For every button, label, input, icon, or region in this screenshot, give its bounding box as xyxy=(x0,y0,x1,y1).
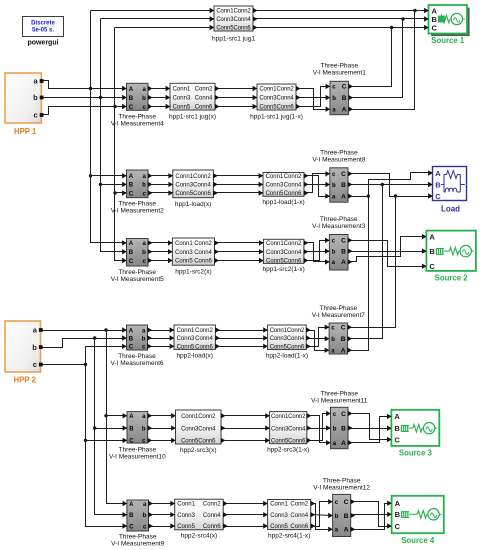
wire measurement8 A to Load A xyxy=(349,173,433,197)
svg-text:b: b xyxy=(142,426,146,432)
svg-text:Conn5Conn6: Conn5Conn6 xyxy=(270,345,305,351)
wire measurement3 A to Source2 A xyxy=(349,237,427,262)
svg-text:Source 4: Source 4 xyxy=(401,536,435,545)
svg-text:Conn3: Conn3 xyxy=(173,96,191,102)
svg-text:b: b xyxy=(332,183,336,189)
wire net c to jug1 Conn5 xyxy=(115,27,215,29)
svg-text:Conn1: Conn1 xyxy=(270,502,288,508)
subsystem block hpp1-src2(1-x) xyxy=(259,239,308,273)
junction net a row2 xyxy=(89,174,92,177)
svg-text:B: B xyxy=(435,180,441,189)
wire row5 phase b straight xyxy=(307,428,331,430)
svg-text:C: C xyxy=(341,411,346,418)
wire row4 conn(x) to conn(1-x) phase c xyxy=(216,346,268,348)
svg-text:Conn2: Conn2 xyxy=(195,87,213,93)
wire HPP2 b to measurement6 B xyxy=(41,339,127,348)
wire measurement3 C to Source2 C xyxy=(349,241,427,267)
junction net a2 row4 xyxy=(104,328,107,331)
svg-text:B: B xyxy=(342,95,347,102)
wire row5 conn(x) to conn(1-x) phase b xyxy=(221,428,270,430)
powergui block (Discrete 5e-05 s.) xyxy=(23,17,64,47)
svg-text:Conn2: Conn2 xyxy=(193,174,211,180)
wire row1 phase a crossover down xyxy=(297,89,331,110)
svg-text:Conn1: Conn1 xyxy=(175,174,193,180)
wire row3 conn(x) to conn(1-x) phase b xyxy=(215,251,264,253)
wire row1 measurement to conn phase b xyxy=(149,97,171,99)
svg-text:Three-Phase: Three-Phase xyxy=(320,305,358,312)
wire row4 phase a crossover down xyxy=(307,331,330,351)
svg-text:C: C xyxy=(341,325,346,332)
wire row4 phase b straight xyxy=(307,338,330,340)
svg-text:Conn6: Conn6 xyxy=(195,345,213,351)
junction net c2 branch xyxy=(84,363,87,366)
wire row2 conn(x) to conn(1-x) phase a xyxy=(214,175,263,177)
svg-text:Conn5Conn6: Conn5Conn6 xyxy=(216,26,251,32)
svg-text:Conn3: Conn3 xyxy=(266,183,284,189)
three-phase V-I measurement block Three-Phase V-I Measurement11 xyxy=(311,391,368,449)
wire row4 measurement to conn phase a xyxy=(149,330,175,332)
svg-text:Three-Phase: Three-Phase xyxy=(320,391,358,398)
svg-text:C: C xyxy=(394,435,400,444)
svg-text:b: b xyxy=(143,513,147,519)
subsystem block hpp2-load(1-x) xyxy=(263,325,310,360)
wire row5 conn(x) to conn(1-x) phase c xyxy=(221,440,270,442)
subsystem block hpp2-src4(x) xyxy=(170,499,227,539)
wire jug1 Conn2 to Source1 A xyxy=(253,10,429,12)
svg-text:Conn3: Conn3 xyxy=(175,183,193,189)
wire row5 conn(x) to conn(1-x) phase a xyxy=(221,415,270,417)
wire row1 phase c crossover up xyxy=(297,87,331,107)
svg-text:hpp2-src4(1-x): hpp2-src4(1-x) xyxy=(268,533,310,540)
wire measurement11 B to Source3 B xyxy=(349,428,392,430)
wire row2 phase b straight xyxy=(305,184,330,186)
svg-text:Conn4: Conn4 xyxy=(193,183,211,189)
wire row1 measurement to conn phase c xyxy=(149,106,171,108)
svg-text:A: A xyxy=(341,193,346,200)
svg-text:Conn5: Conn5 xyxy=(177,524,195,530)
junction net A tap xyxy=(367,194,370,197)
svg-text:Conn1Conn2: Conn1Conn2 xyxy=(271,414,306,420)
wire row1 conn(x) to conn(1-x) phase c xyxy=(215,106,257,108)
wire net b to jug1 Conn3 xyxy=(101,18,215,20)
svg-text:C: C xyxy=(129,345,134,351)
wire HPP2 a to measurement6 A xyxy=(41,330,127,332)
svg-text:HPP 1: HPP 1 xyxy=(14,127,37,136)
svg-text:Conn3Conn4: Conn3Conn4 xyxy=(216,17,251,23)
svg-text:Conn3: Conn3 xyxy=(177,513,195,519)
svg-text:V-I Measurement11: V-I Measurement11 xyxy=(311,398,368,405)
wire row6 measurement to conn phase c xyxy=(149,526,175,528)
svg-text:C: C xyxy=(129,105,134,111)
wire measurement11 A to Source3 A xyxy=(349,417,392,443)
svg-text:b: b xyxy=(332,249,336,255)
svg-text:Three-Phase: Three-Phase xyxy=(321,63,359,70)
wire row3 phase b straight xyxy=(304,251,330,253)
svg-text:Source 2: Source 2 xyxy=(435,274,469,283)
wire row6 conn(x) to conn(1-x) phase a xyxy=(224,503,268,505)
wire row6 phase b straight xyxy=(311,515,333,516)
svg-text:V-I Measurement7: V-I Measurement7 xyxy=(312,312,365,319)
subsystem block hpp2-src3(1-x) xyxy=(265,412,311,454)
svg-text:b: b xyxy=(331,337,335,343)
svg-text:b: b xyxy=(32,343,37,352)
svg-text:Conn6: Conn6 xyxy=(203,524,221,530)
subsystem block hpp1-src1 jug(1-x) xyxy=(250,84,303,121)
svg-text:hpp1-load(1-x): hpp1-load(1-x) xyxy=(262,199,304,206)
wire row6 measurement to conn phase b xyxy=(149,514,175,516)
three-phase V-I measurement block Three-Phase V-I Measurement4 xyxy=(111,83,164,127)
svg-text:Conn5: Conn5 xyxy=(173,105,191,111)
junction net C tap xyxy=(394,194,397,197)
svg-text:A: A xyxy=(129,174,134,180)
wire measurement11 C to Source3 C xyxy=(349,414,392,440)
svg-text:A: A xyxy=(341,440,346,447)
svg-text:b: b xyxy=(142,250,146,256)
junction net b row1 xyxy=(99,96,102,99)
wire net c to measurement2 C xyxy=(115,192,127,194)
wire row4 conn(x) to conn(1-x) phase b xyxy=(216,338,268,340)
svg-text:Conn1: Conn1 xyxy=(173,87,191,93)
svg-text:Three-Phase: Three-Phase xyxy=(118,269,156,276)
svg-text:C: C xyxy=(395,522,401,531)
svg-text:A: A xyxy=(344,527,349,534)
svg-text:Conn3Conn4: Conn3Conn4 xyxy=(259,96,294,102)
svg-text:Conn2: Conn2 xyxy=(284,241,302,247)
wire net c2 vertical HPP2 xyxy=(86,365,127,527)
wire row3 phase a crossover down xyxy=(304,243,330,262)
three-phase V-I measurement block Three-Phase V-I Measurement5 xyxy=(111,239,164,284)
three-phase V-I measurement block Three-Phase V-I Measurement8 xyxy=(312,150,365,203)
svg-text:Discrete: Discrete xyxy=(31,21,55,27)
svg-text:Conn5: Conn5 xyxy=(270,524,288,530)
wire net a2 to measurement10 A xyxy=(107,415,127,417)
svg-text:B: B xyxy=(395,510,401,519)
svg-text:Conn4: Conn4 xyxy=(284,183,302,189)
svg-text:Conn6: Conn6 xyxy=(290,524,308,530)
svg-text:b: b xyxy=(142,183,146,189)
svg-text:C: C xyxy=(129,439,134,445)
wire measurement1 C up to bus xyxy=(349,28,392,87)
svg-text:B: B xyxy=(129,513,134,519)
subsystem block hpp1-src1 jug1 xyxy=(210,6,258,43)
svg-text:C: C xyxy=(129,191,134,197)
svg-text:Conn1Conn2: Conn1Conn2 xyxy=(181,414,216,420)
wire net a2 vertical HPP2 xyxy=(107,331,127,504)
wire net b to measurement2 B xyxy=(101,184,127,186)
svg-text:Conn6: Conn6 xyxy=(193,191,211,197)
svg-text:Load: Load xyxy=(441,205,460,214)
svg-text:B: B xyxy=(394,424,400,433)
junction net b row2 xyxy=(99,183,102,186)
wire row6 conn(x) to conn(1-x) phase b xyxy=(224,514,268,516)
svg-text:Conn5: Conn5 xyxy=(177,345,195,351)
svg-text:Three-Phase: Three-Phase xyxy=(118,114,156,121)
svg-text:Conn1Conn2: Conn1Conn2 xyxy=(270,328,305,334)
wire net B vertical to measurement7 xyxy=(348,185,383,339)
svg-text:B: B xyxy=(341,182,346,189)
svg-text:B: B xyxy=(129,183,134,189)
svg-text:Conn5: Conn5 xyxy=(266,259,284,265)
svg-text:A: A xyxy=(394,412,400,421)
svg-text:Three-Phase: Three-Phase xyxy=(118,353,156,360)
wire row2 phase c crossover up xyxy=(305,174,330,193)
svg-text:hpp1-src1 jug(x): hpp1-src1 jug(x) xyxy=(169,114,216,121)
svg-text:hpp2-load(1-x): hpp2-load(1-x) xyxy=(266,353,308,360)
svg-text:Conn3: Conn3 xyxy=(177,336,195,342)
svg-text:A: A xyxy=(429,232,435,241)
svg-text:b: b xyxy=(335,514,339,520)
svg-text:Conn1: Conn1 xyxy=(175,241,193,247)
svg-text:Conn5Conn6: Conn5Conn6 xyxy=(181,439,216,445)
svg-text:Source 1: Source 1 xyxy=(431,36,465,45)
svg-text:C: C xyxy=(129,524,134,530)
svg-text:Three-Phase: Three-Phase xyxy=(119,447,157,454)
svg-text:hpp1-src1 jug(1-x): hpp1-src1 jug(1-x) xyxy=(250,114,303,121)
svg-text:hpp1-src2(1-x): hpp1-src2(1-x) xyxy=(263,266,305,273)
svg-text:5e-05 s.: 5e-05 s. xyxy=(32,28,54,34)
wire row4 phase c crossover up xyxy=(307,328,330,347)
three-phase source block Source 1 xyxy=(424,5,470,45)
wire row6 phase c crossover up xyxy=(311,502,333,527)
wire row5 phase c crossover up xyxy=(307,414,331,441)
svg-text:Conn3Conn4: Conn3Conn4 xyxy=(271,426,306,432)
svg-text:C: C xyxy=(344,499,349,506)
hydro power plant subsystem block HPP 2 xyxy=(5,321,43,385)
subsystem block hpp1-load(1-x) xyxy=(259,173,309,207)
wire measurement8 B to Load B xyxy=(349,184,433,186)
svg-text:hpp2-src3(1-x): hpp2-src3(1-x) xyxy=(267,447,309,454)
junction net B tap xyxy=(381,183,384,186)
svg-text:B: B xyxy=(129,426,134,432)
svg-text:Three-Phase: Three-Phase xyxy=(320,216,358,223)
svg-text:Conn4: Conn4 xyxy=(195,336,213,342)
svg-text:Conn3: Conn3 xyxy=(270,513,288,519)
wire measurement12 C to Source4 C xyxy=(351,502,392,527)
svg-text:C: C xyxy=(432,23,438,32)
wire row3 measurement to conn phase b xyxy=(149,251,173,253)
subsystem block hpp2-src3(x) xyxy=(171,410,225,454)
svg-text:Conn6: Conn6 xyxy=(284,259,302,265)
svg-text:C: C xyxy=(341,238,346,245)
junction net c2 row5 xyxy=(84,439,87,442)
wire measurement12 B to Source4 B xyxy=(351,514,392,516)
svg-text:A: A xyxy=(129,241,134,247)
svg-text:Conn1: Conn1 xyxy=(177,328,195,334)
three-phase V-I measurement block Three-Phase V-I Measurement9 xyxy=(111,500,164,548)
svg-text:A: A xyxy=(129,87,134,93)
svg-text:V-I Measurement12: V-I Measurement12 xyxy=(313,485,370,492)
junction net a2 row5 xyxy=(104,414,107,417)
three-phase source block Source 2 xyxy=(422,231,476,283)
svg-text:V-I Measurement6: V-I Measurement6 xyxy=(110,360,163,367)
svg-text:Conn2: Conn2 xyxy=(194,241,212,247)
svg-text:Conn2: Conn2 xyxy=(203,502,221,508)
svg-text:Conn3Conn4: Conn3Conn4 xyxy=(181,426,216,432)
svg-text:hpp2-src3(x): hpp2-src3(x) xyxy=(180,447,216,454)
subsystem block hpp1-load(x) xyxy=(168,170,217,208)
wire measurement8 C to Load C xyxy=(349,174,433,197)
svg-text:Conn6: Conn6 xyxy=(194,259,212,265)
wire row2 conn(x) to conn(1-x) phase c xyxy=(214,192,263,194)
svg-text:V-I Measurement2: V-I Measurement2 xyxy=(111,208,164,215)
junction net a row1 xyxy=(89,87,92,90)
three-phase source block Source 4 xyxy=(387,496,444,545)
svg-text:B: B xyxy=(429,247,435,256)
svg-text:Conn6: Conn6 xyxy=(195,105,213,111)
svg-text:hpp2-load(x): hpp2-load(x) xyxy=(176,353,213,360)
junction bus A tap xyxy=(413,9,416,12)
svg-text:B: B xyxy=(129,96,134,102)
svg-text:A: A xyxy=(341,259,346,266)
svg-text:C: C xyxy=(341,171,346,178)
svg-text:C: C xyxy=(435,192,441,201)
wire row2 measurement to conn phase c xyxy=(149,192,173,194)
svg-text:powergui: powergui xyxy=(27,40,58,47)
wire row1 conn(x) to conn(1-x) phase b xyxy=(215,97,257,99)
svg-text:Conn1Conn2: Conn1Conn2 xyxy=(216,9,251,15)
wire row1 conn(x) to conn(1-x) phase a xyxy=(215,88,257,90)
hydro power plant subsystem block HPP 1 xyxy=(5,73,44,136)
wire net b2 vertical HPP2 xyxy=(95,339,127,515)
svg-text:A: A xyxy=(395,499,401,508)
wire net b vertical HPP1 xyxy=(101,19,127,252)
svg-text:V-I Measurement3: V-I Measurement3 xyxy=(312,223,365,230)
wire net a to measurement2 A xyxy=(91,175,127,177)
wire measurement1 B up to bus xyxy=(349,19,403,98)
svg-text:Conn2: Conn2 xyxy=(284,174,302,180)
svg-text:A: A xyxy=(342,107,347,114)
svg-text:b: b xyxy=(333,426,337,432)
three-phase V-I measurement block Three-Phase V-I Measurement12 xyxy=(313,478,370,537)
subsystem block hpp1-src2(x) xyxy=(168,238,219,276)
svg-text:A: A xyxy=(129,414,134,420)
svg-text:Conn3Conn4: Conn3Conn4 xyxy=(270,336,305,342)
wire net b2 to measurement10 B xyxy=(95,428,127,430)
three-phase V-I measurement block Three-Phase V-I Measurement10 xyxy=(109,412,166,461)
svg-text:Conn4: Conn4 xyxy=(284,250,302,256)
wire row5 measurement to conn phase b xyxy=(149,428,176,430)
wire row2 measurement to conn phase a xyxy=(149,175,173,177)
svg-text:b: b xyxy=(142,336,146,342)
svg-text:hpp1-load(x): hpp1-load(x) xyxy=(175,201,212,208)
svg-text:Conn4: Conn4 xyxy=(194,250,212,256)
wire row1 phase b straight xyxy=(297,97,331,99)
svg-text:Conn5Conn6: Conn5Conn6 xyxy=(271,439,306,445)
wire row2 phase a crossover down xyxy=(305,176,330,197)
wire row6 phase a crossover down xyxy=(311,504,333,530)
wire HPP1 c to measurement4 C xyxy=(42,107,127,115)
wire measurement12 A to Source4 A xyxy=(351,504,392,530)
wire measurement3 B to Source2 B xyxy=(349,251,427,253)
three-phase V-I measurement block Three-Phase V-I Measurement3 xyxy=(312,216,365,270)
wire row5 measurement to conn phase a xyxy=(149,415,176,417)
svg-text:Conn5: Conn5 xyxy=(175,259,193,265)
svg-text:Three-Phase: Three-Phase xyxy=(320,150,358,157)
wire HPP1 a to measurement4 A xyxy=(42,81,127,89)
subsystem block hpp1-src1 jug(x) xyxy=(166,83,220,120)
junction net b2 row4 xyxy=(93,336,96,339)
svg-text:V-I Measurement10: V-I Measurement10 xyxy=(109,454,166,461)
wire net a to jug1 Conn1 xyxy=(91,10,215,12)
junction net c row1 xyxy=(113,105,116,108)
wire jug1 Conn4 to Source1 B xyxy=(253,18,429,20)
junction bus C tap xyxy=(390,26,393,29)
svg-text:B: B xyxy=(341,248,346,255)
svg-text:Conn5: Conn5 xyxy=(175,191,193,197)
svg-text:Conn4: Conn4 xyxy=(195,96,213,102)
wire row4 conn(x) to conn(1-x) phase a xyxy=(216,330,268,332)
wire net C vertical to measurement7 xyxy=(348,197,396,328)
svg-text:HPP 2: HPP 2 xyxy=(14,376,37,385)
svg-text:Conn6: Conn6 xyxy=(284,191,302,197)
svg-text:hpp1-src2(x): hpp1-src2(x) xyxy=(175,269,211,276)
svg-text:V-I Measurement9: V-I Measurement9 xyxy=(111,541,164,548)
junction net b2 row5 xyxy=(93,426,96,429)
svg-text:hpp1-src1 jug1: hpp1-src1 jug1 xyxy=(212,36,255,43)
svg-text:V-I Measurement1: V-I Measurement1 xyxy=(313,70,366,77)
svg-text:A: A xyxy=(341,348,346,355)
three-phase V-I measurement block Three-Phase V-I Measurement7 xyxy=(312,305,365,355)
junction net c row2 xyxy=(113,191,116,194)
wire row1 measurement to conn phase a xyxy=(149,88,171,90)
svg-text:hpp2-src4(x): hpp2-src4(x) xyxy=(181,533,217,540)
svg-text:Conn1: Conn1 xyxy=(177,502,195,508)
svg-text:V-I Measurement5: V-I Measurement5 xyxy=(111,276,164,283)
three-phase V-I measurement block Three-Phase V-I Measurement1 xyxy=(313,63,366,115)
wire net a vertical HPP1 xyxy=(91,11,127,243)
svg-text:Conn5Conn6: Conn5Conn6 xyxy=(259,105,294,111)
svg-text:Conn4: Conn4 xyxy=(203,513,221,519)
svg-text:b: b xyxy=(142,96,146,102)
svg-text:b: b xyxy=(332,96,336,102)
wire row6 measurement to conn phase a xyxy=(149,503,175,505)
wire net c vertical HPP1 xyxy=(115,28,127,261)
wire row3 conn(x) to conn(1-x) phase c xyxy=(215,260,264,262)
svg-text:A: A xyxy=(435,169,441,178)
svg-text:c: c xyxy=(33,360,37,369)
svg-text:Conn2: Conn2 xyxy=(195,328,213,334)
svg-text:Three-Phase: Three-Phase xyxy=(118,201,156,208)
svg-text:B: B xyxy=(129,250,134,256)
svg-text:C: C xyxy=(429,262,435,271)
svg-text:b: b xyxy=(33,93,38,102)
wire net A vertical to measurement7 xyxy=(348,197,369,351)
wire row3 phase c crossover up xyxy=(304,241,330,261)
wire measurement1 A up to bus xyxy=(349,11,415,110)
svg-text:Conn4: Conn4 xyxy=(290,513,308,519)
wire row4 measurement to conn phase b xyxy=(149,338,175,340)
wire net c2 to measurement10 C xyxy=(86,440,127,442)
three-phase V-I measurement block Three-Phase V-I Measurement2 xyxy=(111,170,164,215)
wire row5 phase a crossover down xyxy=(307,416,331,443)
svg-text:B: B xyxy=(344,513,349,520)
svg-text:Conn3: Conn3 xyxy=(175,250,193,256)
three-phase RL load block Load xyxy=(428,167,466,214)
wire row3 conn(x) to conn(1-x) phase a xyxy=(215,242,264,244)
svg-text:Three-Phase: Three-Phase xyxy=(323,478,361,485)
svg-text:V-I Measurement8: V-I Measurement8 xyxy=(312,157,365,164)
wire HPP2 c to measurement6 C xyxy=(41,347,127,365)
svg-text:C: C xyxy=(342,84,347,91)
junction bus B tap xyxy=(401,17,404,20)
svg-text:B: B xyxy=(341,336,346,343)
svg-text:Conn1: Conn1 xyxy=(266,174,284,180)
svg-text:A: A xyxy=(129,328,134,334)
svg-text:Conn1: Conn1 xyxy=(266,241,284,247)
svg-text:Conn3: Conn3 xyxy=(266,250,284,256)
svg-text:Conn2: Conn2 xyxy=(290,502,308,508)
svg-text:V-I Measurement4: V-I Measurement4 xyxy=(111,121,164,128)
